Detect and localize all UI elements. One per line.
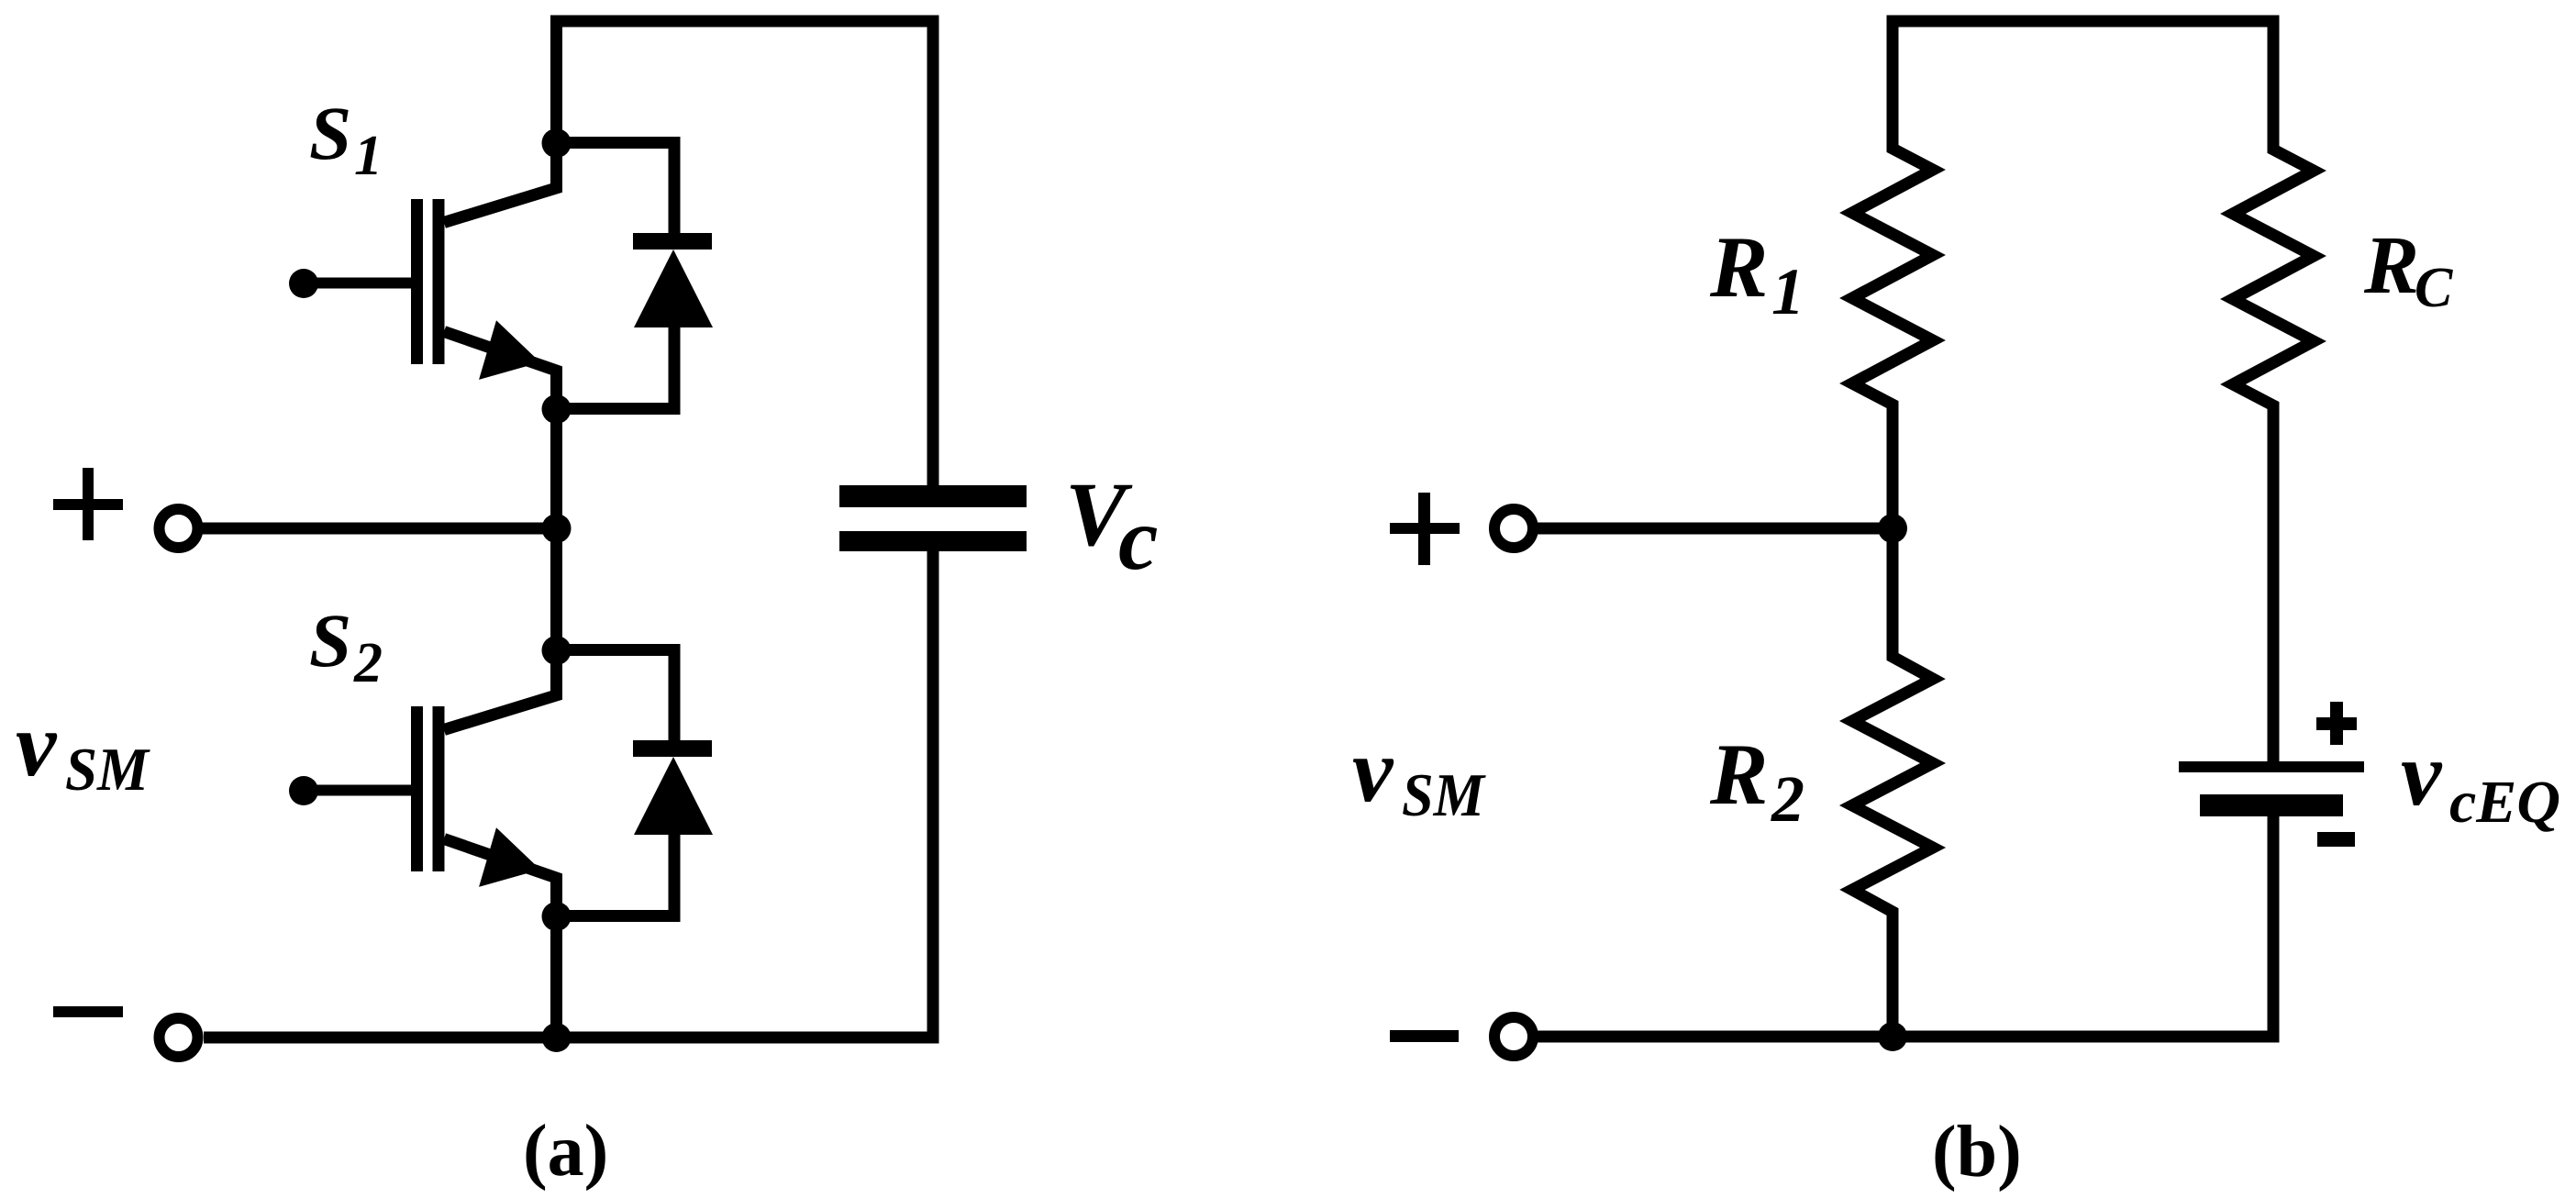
- node: S2 collector: [542, 636, 572, 665]
- D1 cathode bar: [633, 233, 712, 250]
- resistor RC: [2233, 138, 2314, 418]
- svg-text:1: 1: [1771, 255, 1804, 328]
- wire: circuit (b) plus terminal to mid node: [1538, 523, 1893, 535]
- wire: circuit (a) capacitor bottom lead, bottom-right corner, bottom rail: [204, 549, 933, 1037]
- svg-text:v: v: [16, 693, 58, 795]
- battery vcEQ top (long) plate: [2179, 761, 2364, 772]
- wire: S2 emitter down to bottom rail: [550, 916, 562, 1037]
- node: circuit (a) plus junction: [542, 514, 572, 543]
- plus sign circuit (b): [1390, 493, 1460, 565]
- wire: circuit (a) top rail and left drop to S1 collector: [557, 21, 934, 486]
- wire: R1 bottom to mid node: [1887, 405, 1899, 528]
- terminal: circuit (b) minus: [1494, 1017, 1533, 1056]
- S2 gate bar 1: [411, 706, 423, 871]
- svg-text:C: C: [2415, 257, 2453, 319]
- wire: mid vertical S1 emitter to S2 collector: [550, 409, 562, 650]
- S2 gate terminal dot: [289, 776, 318, 805]
- svg-text:R: R: [1709, 726, 1768, 823]
- svg-text:v: v: [2401, 723, 2443, 825]
- S1 emitter lead: [444, 332, 557, 410]
- terminal: circuit (a) minus: [160, 1018, 198, 1057]
- S2 gate lead: [304, 785, 412, 796]
- resistor R2: [1852, 646, 1933, 925]
- svg-text:SM: SM: [65, 736, 150, 804]
- minus sign circuit (b): [1390, 1030, 1459, 1042]
- node: circuit (a) bottom junction: [542, 1023, 572, 1052]
- D2 top connection wire: [557, 650, 675, 742]
- D1 anode lead: [557, 327, 675, 409]
- svg-text:R: R: [2363, 220, 2419, 311]
- S2 gate bar 2: [433, 706, 445, 871]
- wire: R2 bottom lead: [1887, 912, 1899, 1037]
- S1 gate lead: [304, 278, 412, 289]
- node: S2 emitter: [542, 902, 572, 931]
- capacitor C (Vc) bottom plate: [839, 531, 1027, 551]
- S2 collector lead: [444, 650, 557, 730]
- svg-text:S: S: [309, 91, 351, 175]
- svg-text:R: R: [1709, 218, 1768, 316]
- diode D2 (antiparallel with S2): [557, 650, 714, 916]
- resistor R1: [1852, 138, 1933, 417]
- wire: RC bottom to battery top: [2268, 405, 2280, 766]
- battery plus sign: [2316, 702, 2357, 745]
- svg-text:1: 1: [354, 125, 383, 187]
- battery vcEQ bottom (short) plate: [2200, 794, 2343, 816]
- S2 emitter arrow: [482, 831, 537, 884]
- plus sign circuit (a): [53, 468, 123, 540]
- svg-text:S: S: [309, 598, 351, 682]
- D1 triangle: [634, 250, 713, 327]
- svg-text:2: 2: [353, 632, 383, 694]
- svg-text:2: 2: [1771, 762, 1804, 836]
- svg-text:c: c: [1118, 490, 1159, 589]
- D1 top connection wire: [557, 143, 675, 235]
- S1 emitter arrow: [482, 324, 537, 377]
- S1 gate terminal dot: [289, 269, 318, 298]
- node: S1 collector: [542, 128, 572, 158]
- D2 cathode bar: [633, 740, 712, 757]
- node: circuit (b) bottom junction: [1878, 1022, 1907, 1051]
- S1 collector lead: [444, 143, 557, 223]
- transistor S2 (IGBT): [304, 650, 557, 916]
- S2 emitter lead: [444, 839, 557, 917]
- D2 triangle: [634, 757, 713, 835]
- svg-text:cEQ: cEQ: [2449, 769, 2560, 836]
- D2 anode lead: [557, 834, 675, 916]
- svg-text:v: v: [1352, 719, 1394, 821]
- svg-text:(a): (a): [523, 1111, 608, 1192]
- node: circuit (b) mid junction: [1878, 514, 1907, 543]
- transistor S1 (IGBT): [304, 143, 557, 409]
- S1 gate bar 2: [433, 199, 445, 364]
- svg-text:(b): (b): [1932, 1112, 2022, 1192]
- terminal: circuit (a) plus: [160, 509, 198, 548]
- minus sign circuit (a): [53, 1006, 123, 1017]
- battery minus sign: [2317, 832, 2355, 847]
- svg-text:SM: SM: [1402, 761, 1486, 829]
- diode D1 (antiparallel with S1): [557, 143, 714, 409]
- terminal: circuit (b) plus: [1494, 509, 1533, 548]
- S1 gate bar 1: [411, 199, 423, 364]
- wire: circuit (b) bottom rail and right riser to battery: [1538, 813, 2273, 1037]
- node: S1 emitter: [542, 394, 572, 424]
- capacitor C (Vc) top plate: [839, 485, 1027, 507]
- wire: circuit (a) plus terminal to midpoint node: [202, 523, 557, 535]
- wire: mid node to R2: [1887, 528, 1899, 657]
- wire: circuit (b) top rail: [1893, 21, 2273, 150]
